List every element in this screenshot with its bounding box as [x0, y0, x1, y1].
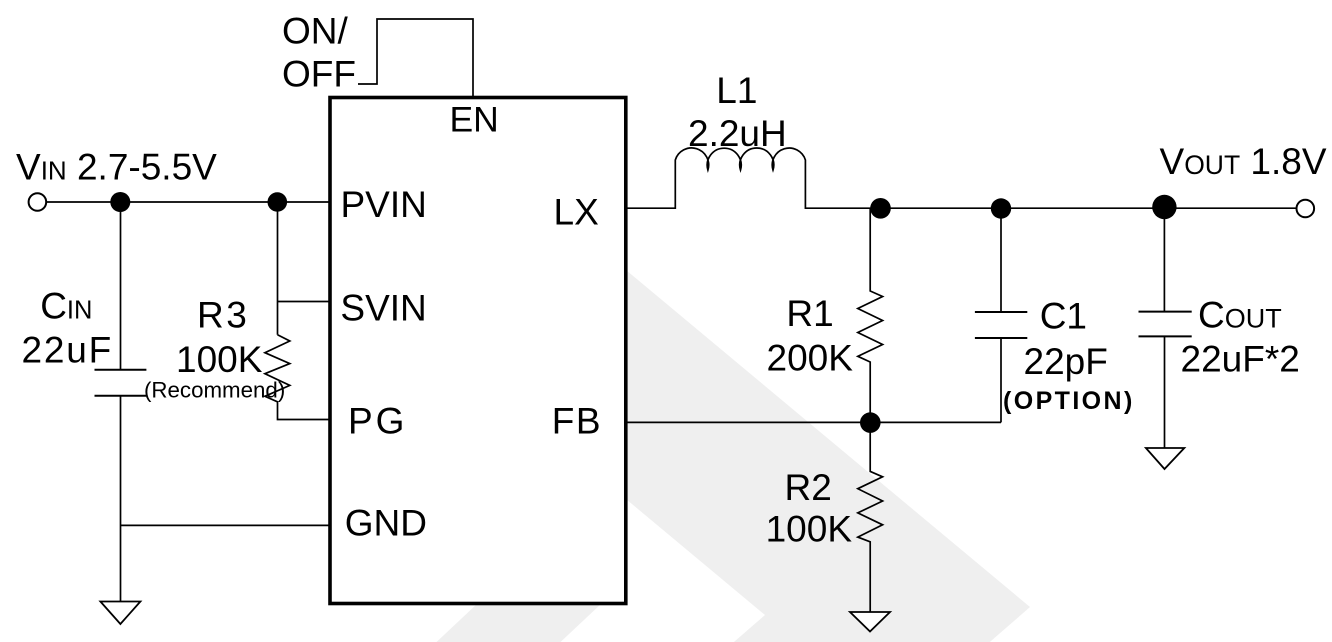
svg-text:PG: PG	[348, 400, 407, 441]
svg-text:L1: L1	[716, 70, 757, 111]
svg-text:2.2uH: 2.2uH	[688, 113, 787, 154]
svg-text:VOUT 1.8V: VOUT 1.8V	[1160, 141, 1327, 182]
svg-text:CIN: CIN	[40, 285, 92, 326]
svg-text:R2: R2	[785, 467, 832, 508]
svg-text:C1: C1	[1040, 296, 1087, 337]
svg-text:VIN 2.7-5.5V: VIN 2.7-5.5V	[16, 147, 217, 188]
svg-text:EN: EN	[450, 100, 499, 140]
svg-text:(OPTION): (OPTION)	[1003, 387, 1135, 415]
svg-text:GND: GND	[345, 503, 427, 544]
svg-text:PVIN: PVIN	[341, 184, 427, 225]
svg-text:R3: R3	[197, 294, 249, 335]
svg-text:FB: FB	[552, 400, 602, 441]
svg-text:R1: R1	[786, 293, 833, 334]
svg-text:COUT: COUT	[1198, 295, 1282, 336]
svg-text:100K: 100K	[176, 339, 263, 380]
svg-text:OFF: OFF	[282, 54, 356, 95]
svg-text:22pF: 22pF	[1024, 341, 1108, 382]
svg-text:200K: 200K	[767, 337, 854, 378]
svg-text:(Recommend): (Recommend)	[144, 377, 285, 402]
svg-text:LX: LX	[554, 192, 599, 233]
svg-text:22uF*2: 22uF*2	[1181, 339, 1300, 380]
svg-text:22uF: 22uF	[22, 330, 114, 371]
svg-text:ON/: ON/	[282, 11, 349, 52]
svg-text:100K: 100K	[766, 509, 853, 550]
svg-text:SVIN: SVIN	[340, 287, 426, 328]
